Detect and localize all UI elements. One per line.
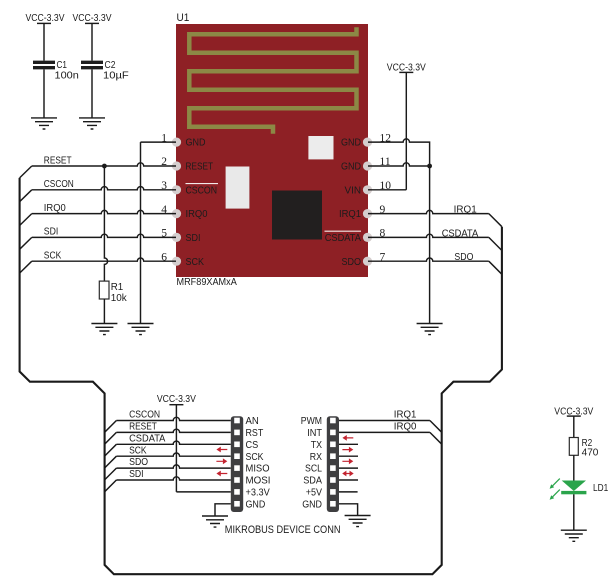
svg-text:AN: AN xyxy=(246,416,259,427)
svg-text:GND: GND xyxy=(302,499,322,510)
arrow out RX (right header) xyxy=(342,447,353,453)
ground (pin1 GND line) xyxy=(128,324,154,335)
svg-text:SCK: SCK xyxy=(44,251,62,262)
svg-text:IRQ0: IRQ0 xyxy=(44,203,67,214)
wire GND pin right header xyxy=(339,504,358,516)
wire CSDATA diagonal to bus xyxy=(489,237,502,250)
wire IRQ1 diagonal to bus xyxy=(489,214,502,227)
svg-text:GND: GND xyxy=(341,162,361,173)
wire CSCON diagonal to bus xyxy=(20,190,32,202)
wire R1 to ground xyxy=(103,299,105,324)
arrow out MISO (left header) xyxy=(216,458,227,464)
connector J1 mikrobus left header xyxy=(231,416,243,512)
svg-text:SDO: SDO xyxy=(454,252,473,263)
svg-text:470: 470 xyxy=(582,447,599,458)
svg-text:SDA: SDA xyxy=(303,476,322,487)
arrow in TX (right header) xyxy=(342,435,353,441)
U1 chip (black) xyxy=(272,191,322,240)
wire GND pin left header xyxy=(215,504,231,516)
capacitor C2 xyxy=(81,60,129,82)
wire IRQ0 xyxy=(32,210,176,213)
wire GND vertical right xyxy=(429,166,431,324)
ground (left header) xyxy=(202,516,228,527)
svg-text:IRQ0: IRQ0 xyxy=(394,422,417,433)
svg-text:CSDATA: CSDATA xyxy=(129,433,166,444)
wire C1 to ground xyxy=(43,69,45,118)
U1 pin names left xyxy=(186,138,218,268)
wire VCC to R2 xyxy=(573,416,575,437)
pin numbers 1-6 xyxy=(161,132,167,263)
svg-text:10µF: 10µF xyxy=(103,71,129,82)
svg-text:RST: RST xyxy=(246,428,264,439)
svg-text:IRQ0: IRQ0 xyxy=(186,209,208,220)
svg-text:MOSI: MOSI xyxy=(246,476,271,487)
resistor R2 xyxy=(569,438,598,459)
ground (right header) xyxy=(345,516,371,527)
wire RST (RESET) xyxy=(116,429,230,432)
svg-text:+5V: +5V xyxy=(306,488,322,499)
wire INT (IRQ0) xyxy=(339,431,430,433)
U1 pin pads right xyxy=(363,138,372,266)
ground (LED) xyxy=(561,530,587,541)
wire TX stub xyxy=(339,443,358,445)
svg-text:GND: GND xyxy=(246,499,266,510)
power VCC-3.3V (right) xyxy=(387,62,426,73)
svg-text:RESET: RESET xyxy=(129,422,157,433)
wire pin9 IRQ1 xyxy=(368,210,489,213)
arrow out SCL (right header) xyxy=(342,458,353,464)
svg-text:VIN: VIN xyxy=(345,185,362,196)
ground (C1) xyxy=(31,118,57,129)
svg-text:SDO: SDO xyxy=(129,457,148,468)
svg-text:SDI: SDI xyxy=(129,469,144,480)
wire SCK (mikrobus) xyxy=(116,453,230,456)
svg-text:C2: C2 xyxy=(105,60,116,71)
wire RX stub xyxy=(339,455,358,457)
right header pin labels xyxy=(301,416,322,510)
wire main bus outline xyxy=(20,178,502,574)
LED emission arrows xyxy=(550,479,560,500)
node RESET junction xyxy=(102,164,107,169)
pin numbers 7-12 xyxy=(380,132,392,263)
wire pin8 CSDATA xyxy=(368,234,489,237)
wire SCK xyxy=(32,258,176,261)
svg-text:SCL: SCL xyxy=(305,464,322,475)
wire +3.3V pin xyxy=(176,491,230,493)
ground (R1) xyxy=(91,324,117,335)
svg-text:INT: INT xyxy=(307,428,322,439)
svg-text:CSDATA: CSDATA xyxy=(325,233,361,244)
svg-text:RX: RX xyxy=(310,452,322,463)
svg-text:RESET: RESET xyxy=(186,162,214,173)
wire pin11 GND xyxy=(368,163,430,166)
power VCC-3.3V (mikrobus) xyxy=(157,394,196,405)
arrow bidir SDA (right header) xyxy=(342,471,354,477)
svg-text:VCC-3.3V: VCC-3.3V xyxy=(157,394,196,405)
node GND junction right xyxy=(427,164,432,169)
power VCC-3.3V (C1) xyxy=(26,13,65,24)
svg-text:RESET: RESET xyxy=(44,155,72,166)
LED LD1 xyxy=(561,481,608,495)
wire SCK diagonal to bus xyxy=(105,456,117,468)
wire C2 to ground xyxy=(91,69,93,118)
svg-text:SDI: SDI xyxy=(186,233,201,244)
U1 pin pads left xyxy=(172,138,181,266)
wire SDI diagonal to bus xyxy=(20,237,32,249)
wire CS diagonal to bus xyxy=(105,444,117,456)
wire SDI xyxy=(32,234,176,237)
svg-text:IRQ1: IRQ1 xyxy=(394,410,417,421)
svg-text:CSDATA: CSDATA xyxy=(442,228,479,239)
wire MISO diagonal to bus xyxy=(105,468,117,480)
wire pin10 VIN xyxy=(368,189,406,191)
svg-text:MRF89XAMxA: MRF89XAMxA xyxy=(177,277,238,288)
svg-text:+3.3V: +3.3V xyxy=(246,488,270,499)
wire PWM (IRQ1) xyxy=(339,420,430,422)
svg-text:IRQ1: IRQ1 xyxy=(339,209,361,220)
arrow in SCK (left header) xyxy=(216,447,227,453)
capacitor C1 xyxy=(33,60,79,82)
wire VCC to C1 xyxy=(43,23,45,60)
left header pin labels xyxy=(246,416,271,510)
svg-text:SCK: SCK xyxy=(129,445,147,456)
wire AN diagonal to bus xyxy=(105,421,117,433)
svg-text:CSCON: CSCON xyxy=(129,410,160,421)
U1 CSCON overline xyxy=(186,183,219,185)
svg-text:CS: CS xyxy=(246,440,259,451)
wire LED to ground xyxy=(573,494,575,530)
ground (C2) xyxy=(79,118,105,129)
svg-text:SDI: SDI xyxy=(44,227,59,238)
U1 pin names right xyxy=(325,138,361,268)
wire RESET xyxy=(32,163,176,166)
svg-text:100n: 100n xyxy=(55,71,79,82)
U1 shield component (white) xyxy=(308,136,333,159)
power VCC-3.3V (LED) xyxy=(554,406,593,417)
connector J2 mikrobus right header xyxy=(327,416,339,512)
svg-text:IRQ1: IRQ1 xyxy=(454,205,477,216)
wire SCL stub xyxy=(339,467,358,469)
wire R2 to LED xyxy=(573,455,575,480)
ground (right GND line) xyxy=(417,324,443,335)
wire GND vertical left xyxy=(140,142,142,323)
svg-text:10k: 10k xyxy=(111,293,128,304)
svg-text:GND: GND xyxy=(186,138,206,149)
U1 crystal component (light gray) xyxy=(226,167,250,209)
svg-text:MISO: MISO xyxy=(246,464,270,475)
wire +5V stub xyxy=(339,491,358,493)
wire VCC vertical to VIN xyxy=(405,72,407,189)
wire pin7 SDO xyxy=(368,258,489,261)
svg-text:VCC-3.3V: VCC-3.3V xyxy=(73,13,112,24)
resistor R1 xyxy=(99,281,127,304)
module U1 MRF89XAMxA body xyxy=(176,12,368,288)
svg-text:R1: R1 xyxy=(111,282,124,293)
svg-text:MIKROBUS DEVICE CONN: MIKROBUS DEVICE CONN xyxy=(225,524,341,536)
wire pin12 GND xyxy=(368,139,430,166)
wire RESET diagonal to bus xyxy=(20,166,32,178)
power VCC-3.3V (C2) xyxy=(73,13,112,24)
svg-text:SCK: SCK xyxy=(186,257,205,268)
U1 CSDATA overline xyxy=(325,230,362,232)
antenna trace on U1 xyxy=(189,27,356,134)
wire MISO (SDO) xyxy=(116,465,230,468)
wire RST diagonal to bus xyxy=(105,432,117,444)
svg-text:U1: U1 xyxy=(177,12,190,24)
arrow in MOSI (left header) xyxy=(216,471,227,477)
wire CS (CSDATA) xyxy=(116,441,230,444)
svg-text:C1: C1 xyxy=(57,60,68,71)
svg-text:CSCON: CSCON xyxy=(44,179,74,190)
wire AN (CSCON) xyxy=(116,417,230,420)
wire VCC to C2 xyxy=(91,23,93,60)
wire IRQ1 diagonal to bus (bottom) xyxy=(430,421,442,433)
svg-text:SDO: SDO xyxy=(342,257,362,268)
svg-text:LD1: LD1 xyxy=(593,483,608,494)
wire IRQ0 diagonal to bus xyxy=(20,214,32,226)
svg-text:TX: TX xyxy=(311,440,322,451)
wire R1 pull-up vertical xyxy=(104,166,107,281)
wire SDO diagonal to bus xyxy=(489,261,502,274)
wire SCK diagonal to bus xyxy=(20,261,32,273)
svg-text:SCK: SCK xyxy=(246,452,264,463)
wire VCC vertical to +3.3V pin xyxy=(175,405,177,492)
svg-text:GND: GND xyxy=(341,138,361,149)
wire IRQ0 diagonal to bus (bottom) xyxy=(430,432,442,444)
svg-text:CSCON: CSCON xyxy=(186,185,218,196)
wire SDA stub xyxy=(339,479,358,481)
wire MOSI (SDI) xyxy=(116,477,230,480)
svg-text:PWM: PWM xyxy=(301,416,322,427)
wire pin1 GND xyxy=(141,141,177,143)
wire MOSI diagonal to bus xyxy=(105,480,117,492)
svg-text:VCC-3.3V: VCC-3.3V xyxy=(26,13,65,24)
wire CSCON xyxy=(32,187,176,190)
